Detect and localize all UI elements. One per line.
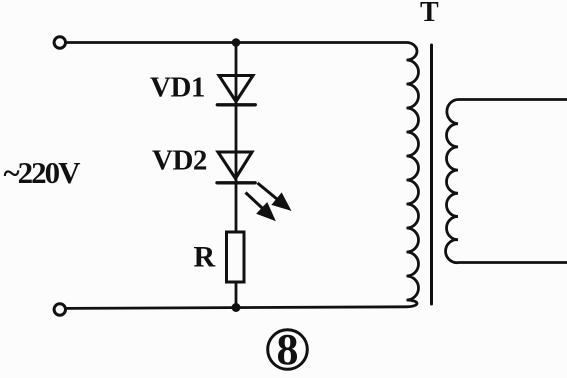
svg-text:~220V: ~220V xyxy=(4,155,82,190)
svg-text:R: R xyxy=(194,241,216,274)
svg-text:VD2: VD2 xyxy=(152,145,207,177)
svg-text:T: T xyxy=(420,0,439,28)
svg-text:8: 8 xyxy=(277,325,299,374)
svg-text:VD1: VD1 xyxy=(150,72,205,104)
